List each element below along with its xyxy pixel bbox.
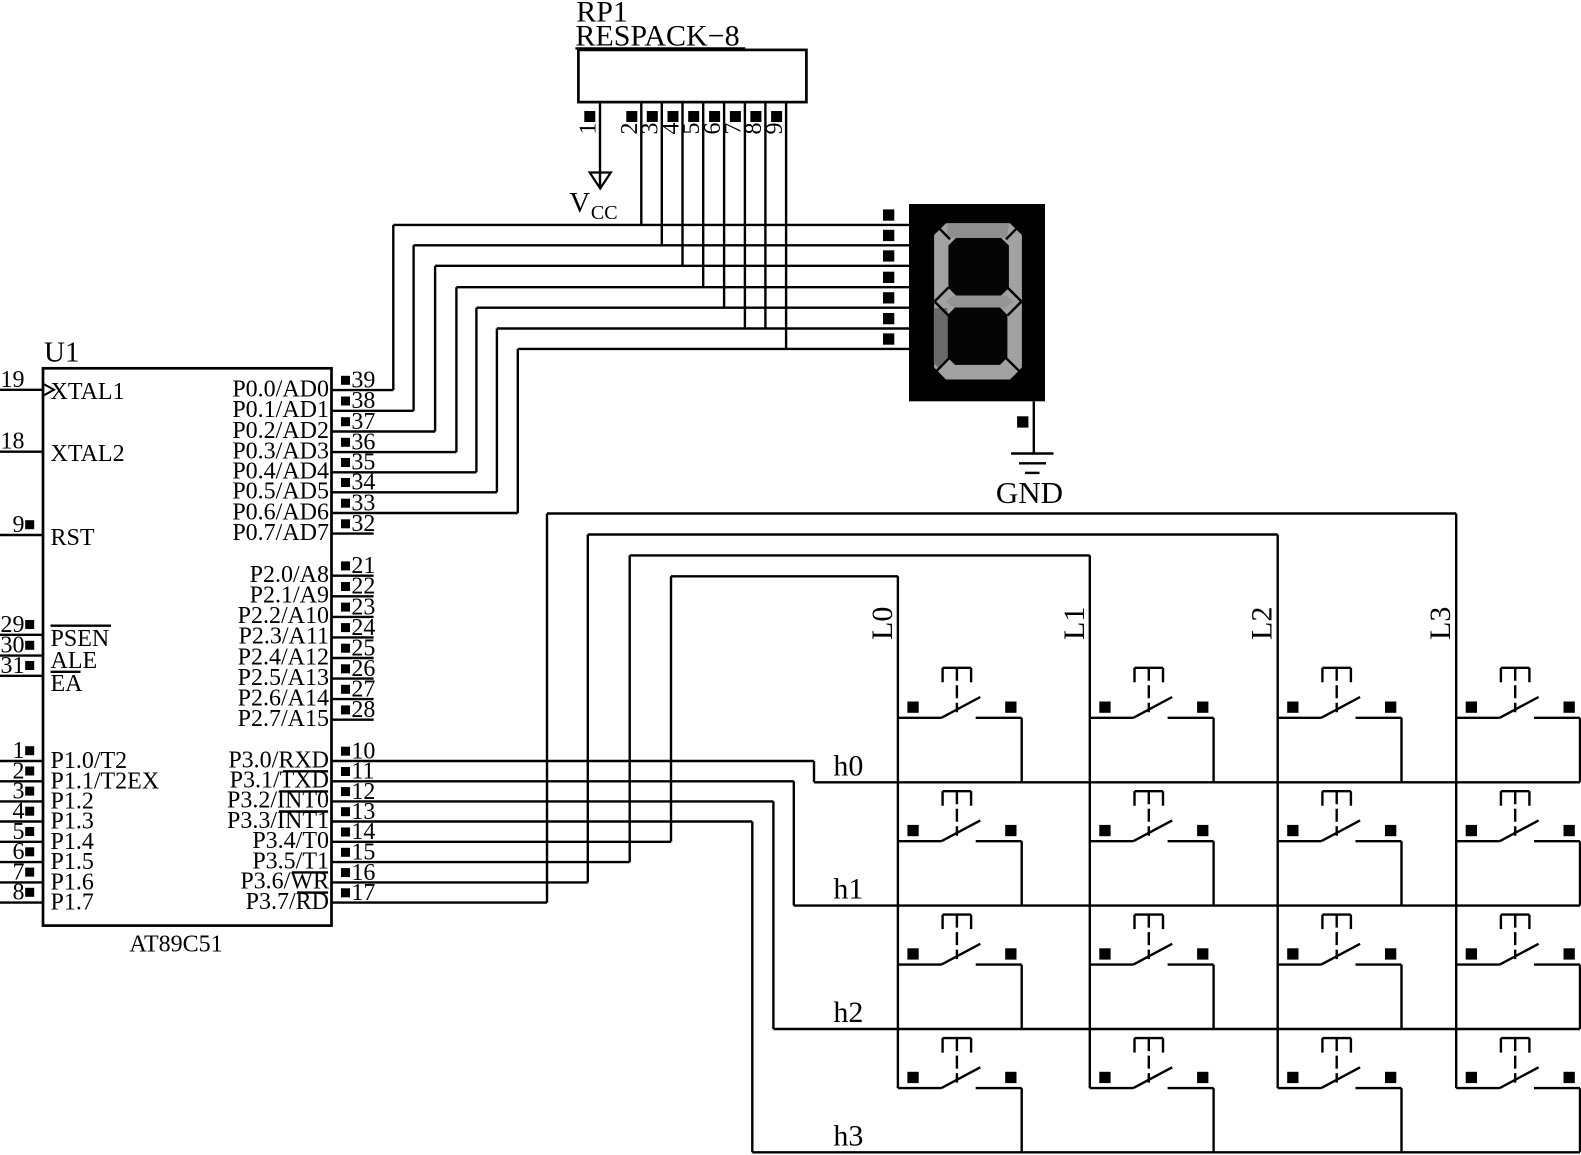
pushbutton switch row h1 col L3 [1456, 791, 1580, 905]
wire net P0.2 from pin 37 to display segment wire [332, 266, 910, 432]
pushbutton switch row h3 col L2 [1278, 1038, 1402, 1152]
display segment pin square 3 [883, 250, 894, 261]
svg-text:GND: GND [996, 475, 1063, 510]
svg-text:CC: CC [591, 202, 618, 224]
pushbutton switch row h0 col L2 [1278, 668, 1402, 783]
RP1 pin 2 wire down to bus [617, 102, 643, 225]
U1 XTAL1 clock input chevron [44, 384, 54, 395]
node label L0 [866, 607, 899, 640]
U1 pin 37 (P0.2/AD2) number + square [341, 409, 375, 435]
RP1 pin 8 wire down to bus [741, 102, 767, 328]
svg-text:U1: U1 [44, 337, 79, 369]
U1 pin 14 (P3.4/T0) number + square [341, 819, 375, 845]
U1 pin 17 (P3.7/RD) number + square [341, 880, 375, 906]
wire from pin 11 toward keypad [332, 780, 794, 782]
7-segment display lit segments [934, 223, 1022, 379]
display segment pin square 2 [883, 230, 894, 241]
display segment pin square 6 [883, 313, 894, 324]
U1 pin label P3.4/T0 [252, 828, 329, 854]
RP1 pin 1 wire to VCC [575, 102, 601, 187]
pushbutton switch row h3 col L3 [1456, 1038, 1580, 1152]
U1 pin 27 (P2.6/A14) stub + number + square [332, 677, 376, 703]
svg-text:h3: h3 [833, 1119, 863, 1152]
svg-text:V: V [569, 187, 590, 219]
svg-text:L2: L2 [1246, 607, 1279, 640]
U1 pin label P1.5 [51, 849, 94, 875]
U1 pin 19 (XTAL1) stub wire + number [0, 367, 43, 393]
U1 pin label RST [51, 525, 95, 551]
wire from pin 17 toward keypad [332, 901, 548, 903]
RP1 pin 6 wire down to bus [700, 102, 726, 308]
svg-text:h2: h2 [833, 996, 863, 1029]
U1 pin label P1.1/T2EX [51, 768, 160, 794]
U1 pin label P3.7/RD [246, 889, 329, 915]
RP1 pin 7 wire down to bus [721, 102, 747, 328]
display segment pin square 1 [883, 209, 894, 220]
U1 pin label P0.1/AD1 [232, 397, 329, 423]
svg-text:18: 18 [1, 429, 25, 455]
AT89C51 value label [129, 932, 222, 958]
wire from pin 15 toward keypad [332, 861, 630, 863]
U1 pin 10 (P3.0/RXD) number + square [341, 738, 375, 764]
node label L3 [1424, 607, 1457, 640]
svg-text:L3: L3 [1424, 607, 1457, 640]
wire from pin 16 toward keypad [332, 881, 588, 883]
pushbutton switch row h2 col L2 [1278, 915, 1402, 1029]
net h3: drop from P3.3 and row line [752, 822, 1580, 1153]
U1 pin 4 (P1.3) stub wire + number [0, 799, 43, 825]
resistor pack RP1 body [578, 50, 806, 102]
U1 pin label P2.0/A8 [250, 562, 329, 588]
U1 pin 13 (P3.3/INT1) number + square [341, 799, 375, 825]
pushbutton switch row h3 col L1 [1090, 1038, 1214, 1152]
U1 pin label EA [51, 671, 84, 697]
net h2: drop from P3.2 and row line [773, 801, 1580, 1029]
svg-text:L0: L0 [866, 607, 899, 640]
power symbol VCC (arrow) [569, 173, 617, 224]
U1 pin label P0.2/AD2 [232, 418, 329, 444]
pushbutton switch row h2 col L1 [1090, 915, 1214, 1029]
U1 pin label P0.0/AD0 [232, 376, 329, 402]
U1 reference designator label [44, 337, 79, 369]
U1 pin 28 (P2.7/A15) stub + number + square [332, 697, 376, 723]
U1 pin label P2.1/A9 [250, 583, 329, 609]
U1 pin label P0.3/AD3 [232, 438, 329, 464]
U1 pin 16 (P3.6/WR) number + square [341, 860, 375, 886]
net L1: wire from P3.5 riser / top run / column line [630, 555, 1090, 1088]
U1 pin label P0.6/AD6 [232, 499, 329, 525]
U1 pin 22 (P2.1/A9) stub + number + square [332, 574, 376, 600]
U1 pin label P2.5/A13 [238, 665, 329, 691]
U1 pin 29 (PSEN) stub wire + number [0, 612, 43, 638]
U1 pin label P1.6 [51, 869, 94, 895]
net h1: drop from P3.1 and row line [794, 781, 1580, 905]
U1 pin label P2.4/A12 [238, 644, 329, 670]
U1 pin label P2.2/A10 [238, 603, 329, 629]
node label h1 [833, 873, 863, 906]
U1 pin label XTAL2 [51, 441, 125, 467]
U1 pin label ALE [51, 648, 98, 674]
U1 pin 11 (P3.1/TXD) number + square [341, 759, 375, 785]
U1 pin 34 (P0.5/AD5) number + square [341, 470, 375, 496]
svg-text:8: 8 [13, 880, 25, 906]
svg-text:h1: h1 [833, 873, 863, 906]
net h0: drop from P3.0 and row line [814, 761, 1580, 782]
wire stub P0.7 (unconnected) [332, 532, 374, 534]
display segment pin square 7 [883, 333, 894, 344]
U1 pin 30 (ALE) stub wire + number [0, 633, 43, 659]
U1 pin 26 (P2.5/A13) stub + number + square [332, 656, 376, 682]
pushbutton switch row h1 col L2 [1278, 791, 1402, 905]
U1 pin label P1.7 [51, 890, 94, 916]
U1 pin 6 (P1.5) stub wire + number [0, 839, 43, 865]
wire net P0.5 from pin 34 to display segment wire [332, 329, 910, 493]
svg-text:EA: EA [51, 671, 84, 697]
node label h2 [833, 996, 863, 1029]
wire net P0.0 from pin 39 to display segment wire [332, 225, 910, 390]
U1 pin label P1.3 [51, 809, 94, 835]
net L2: wire from P3.6 riser / top run / column line [588, 535, 1278, 1089]
U1 pin 35 (P0.4/AD4) number + square [341, 450, 375, 476]
7-segment display body [909, 204, 1045, 401]
U1 pin label XTAL1 [51, 379, 125, 405]
RP1 reference designator [576, 0, 628, 28]
RP1 pin 4 wire down to bus [658, 102, 684, 266]
svg-text:XTAL2: XTAL2 [51, 441, 125, 467]
microcontroller U1 AT89C51 body [43, 368, 332, 925]
U1 pin label P3.2/INT0 [227, 788, 329, 814]
display segment pin square 5 [883, 292, 894, 303]
node label h3 [833, 1119, 863, 1152]
pushbutton switch row h2 col L3 [1456, 915, 1580, 1029]
U1 pin label P1.2 [51, 788, 94, 814]
U1 pin 39 (P0.0/AD0) number + square [341, 368, 375, 394]
U1 pin label P3.0/RXD [228, 747, 329, 773]
wire net P0.3 from pin 36 to display segment wire [332, 287, 910, 452]
U1 pin label P0.7/AD7 [232, 520, 329, 546]
U1 pin label P3.1/TXD [230, 768, 329, 794]
U1 pin label P3.5/T1 [252, 848, 329, 874]
svg-text:h0: h0 [833, 749, 863, 782]
svg-text:P2.7/A15: P2.7/A15 [238, 706, 329, 732]
U1 pin 2 (P1.1/T2EX) stub wire + number [0, 758, 43, 784]
U1 pin 5 (P1.4) stub wire + number [0, 819, 43, 845]
pushbutton switch row h3 col L0 [898, 1038, 1022, 1152]
svg-text:9: 9 [762, 123, 788, 135]
U1 pin label P3.3/INT1 [227, 808, 329, 834]
U1 pin 7 (P1.6) stub wire + number [0, 859, 43, 885]
U1 pin label P2.7/A15 [238, 706, 329, 732]
wire net P0.6 from pin 33 to display segment wire [332, 349, 910, 513]
wire display common cathode to ground [1017, 401, 1034, 453]
display segment pin square 4 [883, 272, 894, 283]
svg-text:XTAL1: XTAL1 [51, 379, 125, 405]
U1 pin label P1.4 [51, 829, 94, 855]
svg-text:P0.7/AD7: P0.7/AD7 [232, 520, 329, 546]
svg-text:9: 9 [13, 512, 25, 538]
U1 pin 12 (P3.2/INT0) number + square [341, 779, 375, 805]
pushbutton switch row h1 col L1 [1090, 791, 1214, 905]
RP1 value label RESPACK-8 [575, 20, 745, 53]
U1 pin 24 (P2.3/A11) stub + number + square [332, 615, 376, 641]
svg-text:1: 1 [575, 123, 601, 135]
U1 pin 33 (P0.6/AD6) number + square [341, 490, 375, 516]
U1 pin 1 (P1.0/T2) stub wire + number [0, 738, 43, 764]
wire net P0.4 from pin 35 to display segment wire [332, 308, 910, 473]
RP1 pin 3 wire down to bus [638, 102, 664, 245]
U1 pin label P0.4/AD4 [232, 459, 329, 485]
RP1 pin 5 wire down to bus [679, 102, 705, 287]
pushbutton switch row h0 col L3 [1456, 668, 1580, 783]
U1 pin 8 (P1.7) stub wire + number [0, 880, 43, 906]
svg-text:P1.7: P1.7 [51, 890, 94, 916]
svg-text:AT89C51: AT89C51 [129, 932, 222, 958]
U1 pin label P2.3/A11 [239, 624, 329, 650]
U1 pin 38 (P0.1/AD1) number + square [341, 388, 375, 414]
U1 pin 32 (P0.7/AD7) number + square [341, 511, 375, 537]
ground symbol GND [996, 454, 1063, 511]
wire from pin 10 toward keypad [332, 760, 815, 762]
U1 pin 15 (P3.5/T1) number + square [341, 840, 375, 866]
RP1 pin 9 wire down to bus [762, 102, 788, 349]
pushbutton switch row h1 col L0 [898, 791, 1022, 905]
U1 pin label P3.6/WR [240, 869, 329, 895]
U1 pin label PSEN [51, 626, 112, 652]
U1 pin 21 (P2.0/A8) stub + number + square [332, 553, 376, 579]
U1 pin label P2.6/A14 [238, 685, 329, 711]
svg-text:ALE: ALE [51, 648, 98, 674]
node label L2 [1246, 607, 1279, 640]
svg-text:L1: L1 [1058, 607, 1091, 640]
wire net P0.1 from pin 38 to display segment wire [332, 245, 910, 410]
U1 pin 36 (P0.3/AD3) number + square [341, 430, 375, 456]
pushbutton switch row h0 col L0 [898, 668, 1022, 783]
pushbutton switch row h0 col L1 [1090, 668, 1214, 783]
U1 pin 31 (EA) stub wire + number [0, 653, 43, 679]
pushbutton switch row h2 col L0 [898, 915, 1022, 1029]
svg-text:RST: RST [51, 525, 95, 551]
U1 pin 9 (RST) stub wire + number [0, 512, 43, 538]
svg-text:31: 31 [1, 653, 25, 679]
U1 pin label P0.5/AD5 [232, 479, 329, 505]
net L3: wire from P3.7 riser / top run / column line [547, 514, 1456, 1089]
U1 pin 23 (P2.2/A10) stub + number + square [332, 594, 376, 620]
wire from pin 13 toward keypad [332, 820, 753, 822]
net L0: wire from P3.4 riser / top run / column line [671, 576, 898, 1088]
node label L1 [1058, 607, 1091, 640]
wire from pin 12 toward keypad [332, 800, 774, 802]
U1 pin 3 (P1.2) stub wire + number [0, 778, 43, 804]
U1 pin 25 (P2.4/A12) stub + number + square [332, 635, 376, 661]
svg-text:19: 19 [1, 367, 25, 393]
U1 pin label P1.0/T2 [51, 748, 128, 774]
wire from pin 14 toward keypad [332, 841, 672, 843]
U1 pin 18 (XTAL2) stub wire + number [0, 429, 43, 455]
node label h0 [833, 749, 863, 782]
